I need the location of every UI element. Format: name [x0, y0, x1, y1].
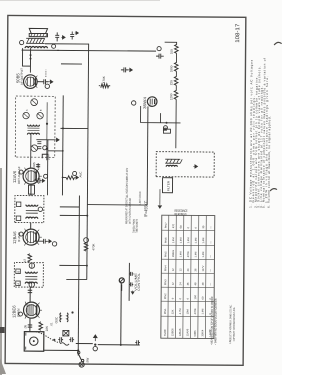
junction dots on plate wire	[30, 58, 32, 60]
volume pot wire comp	[42, 154, 50, 160]
svg-text:220: 220	[169, 80, 173, 85]
junction dots	[46, 123, 48, 125]
svg-text:.01: .01	[49, 322, 53, 326]
pen curl mark left	[270, 189, 277, 192]
resistor R1	[39, 322, 54, 332]
secondary winding	[27, 125, 39, 127]
svg-text:108-17: 108-17	[235, 24, 241, 43]
svg-text:READINGS: READINGS	[175, 213, 187, 217]
svg-text:1.4M: 1.4M	[178, 252, 182, 258]
svg-text:AVC: AVC	[79, 171, 83, 178]
wire V3 grid to can C coil	[30, 134, 32, 168]
svg-text:150: 150	[193, 295, 197, 300]
svg-text:ALL VOLTAGES TAKEN AT 117V: ALL VOLTAGES TAKEN AT 117V	[125, 168, 129, 198]
svg-text:B: B	[40, 109, 43, 111]
can wire	[46, 102, 48, 160]
core lines	[27, 128, 39, 131]
cap on AC line	[135, 340, 140, 344]
svg-text:470K: 470K	[102, 76, 106, 83]
svg-text:50B5: 50B5	[193, 330, 197, 337]
svg-text:SW: SW	[86, 358, 90, 363]
B+ riser wire	[57, 49, 156, 52]
svg-text:.005: .005	[32, 162, 36, 168]
svg-text:6. Volume control at maximum,: 6. Volume control at maximum, no signal …	[267, 116, 272, 208]
pen curl mark right	[274, 42, 282, 45]
primary winding	[25, 282, 37, 284]
voltage circle above 35W4	[131, 101, 135, 105]
svg-text:DET-AVC-AF: DET-AVC-AF	[17, 166, 21, 184]
svg-text:PIN7: PIN7	[164, 222, 168, 228]
wire x246	[60, 127, 87, 129]
wire IF2 to V3	[30, 184, 32, 195]
IF3 can big (dashed) around det coils	[15, 96, 55, 160]
line cluster circle	[93, 346, 97, 350]
junction dot on bus	[77, 349, 79, 351]
top edge faint line	[0, 0, 160, 2]
padder cap A	[58, 337, 63, 342]
svg-text:COPYRIGHT 1949 INDIANAPOLIS 5,: COPYRIGHT 1949 INDIANAPOLIS 5, IND.	[233, 307, 236, 341]
cathode bypass cap + ground below V4	[37, 79, 53, 88]
svg-text:4.7M: 4.7M	[178, 309, 182, 315]
svg-text:A: A	[16, 283, 20, 285]
can C secondary return + gnd	[36, 138, 59, 142]
svg-text:22K: 22K	[45, 326, 49, 331]
svg-text:1.4M: 1.4M	[201, 309, 205, 315]
svg-text:• TAKEN WITH NO SIGNAL VACUUM: • TAKEN WITH NO SIGNAL VACUUM VOLTMETER	[213, 299, 217, 345]
grid capacitor C2	[23, 325, 32, 330]
svg-text:35W4: 35W4	[142, 96, 147, 109]
svg-text:1000: 1000	[169, 65, 173, 72]
pot bottom wire	[128, 263, 130, 301]
svg-text:OSC: OSC	[54, 316, 58, 323]
speaker return wire	[45, 43, 89, 45]
wire x159	[60, 214, 87, 216]
svg-text:0: 0	[194, 226, 198, 228]
speaker SP	[29, 28, 47, 36]
svg-text:0: 0	[178, 297, 182, 299]
svg-text:22K: 22K	[171, 309, 175, 314]
svg-text:48: 48	[193, 282, 197, 285]
wire x170 down to B+ line	[87, 204, 147, 206]
det load wiring	[48, 151, 67, 178]
wire x167	[60, 206, 79, 208]
cap on pot wire	[129, 272, 133, 276]
resistor R2 between IF1 and V2	[23, 254, 32, 262]
svg-text:.05: .05	[23, 325, 27, 330]
gnd arrow below	[193, 165, 198, 169]
svg-text:1MEG: 1MEG	[171, 250, 175, 257]
oscillator coil L2	[54, 311, 73, 323]
wire V2 plate to IF2	[30, 223, 32, 229]
cap at can A output	[28, 290, 33, 292]
svg-text:PIN4: PIN4	[163, 265, 167, 271]
svg-text:30: 30	[201, 225, 205, 228]
core lines	[25, 277, 37, 280]
grid resistor boxed	[28, 185, 34, 194]
svg-text:470K: 470K	[92, 244, 96, 251]
trimmer caps boxed labels	[16, 281, 21, 286]
svg-text:470: 470	[171, 223, 175, 228]
B+ wire from transformer down	[22, 49, 59, 51]
bleeder lead wire + arrow	[158, 189, 162, 208]
svg-text:LINE CORD: LINE CORD	[138, 191, 142, 204]
resistor R6 with voltage circle	[84, 238, 96, 251]
svg-text:WITH CHASSIS GROUND: WITH CHASSIS GROUND	[128, 198, 132, 224]
resistor near 50B5 grid	[99, 76, 110, 88]
IF transformer T1 can (dashed)	[14, 263, 43, 288]
secondary winding	[25, 272, 37, 274]
AC line wire down	[98, 344, 140, 346]
detector filter caps	[37, 142, 47, 150]
svg-text:—: —	[210, 226, 213, 229]
svg-text:470K: 470K	[193, 308, 197, 314]
dashed box filter/field coil	[156, 152, 214, 177]
AVC bus wire	[61, 95, 64, 195]
padder return wire	[76, 343, 93, 345]
volume control pot R9	[119, 272, 141, 291]
IF transformer T2 can (dashed)	[15, 196, 44, 223]
svg-text:PIN6: PIN6	[164, 237, 168, 243]
svg-text:0: 0	[171, 297, 175, 299]
svg-text:36: 36	[193, 268, 197, 271]
rect plate wiring	[141, 106, 181, 123]
bottom-left smudge	[0, 358, 6, 374]
svg-text:68: 68	[179, 225, 183, 228]
on-off switch on line cord	[77, 351, 89, 362]
cap + gnd near volume pot	[129, 282, 134, 294]
diode load resistor below V3	[66, 171, 79, 179]
svg-text:FILTER: FILTER	[166, 180, 170, 191]
output tube V4 50B5	[15, 68, 39, 89]
svg-text:0: 0	[186, 297, 190, 299]
svg-text:CONTROL: CONTROL	[137, 273, 141, 291]
table grid	[161, 215, 215, 338]
voltage circle	[19, 232, 23, 236]
wire converter plate to IF1	[29, 287, 31, 302]
svg-text:12BE6: 12BE6	[170, 328, 174, 336]
svg-text:1.4M: 1.4M	[201, 252, 205, 258]
svg-text:AF OUTPUT: AF OUTPUT	[20, 68, 24, 85]
det tube V3 12AV6	[12, 166, 42, 185]
coupling cap C8	[32, 162, 40, 168]
electrolytic cap with gnd arrow	[121, 67, 133, 72]
screen bypass cap + gnd below V2	[39, 239, 57, 246]
svg-text:24: 24	[186, 268, 190, 271]
R12	[169, 62, 178, 72]
junction dots	[86, 265, 88, 267]
B+ line	[146, 106, 149, 205]
line cluster dot	[94, 343, 96, 345]
dotted cathode lead	[45, 70, 47, 77]
wire x310	[61, 63, 82, 65]
svg-text:—: —	[209, 255, 212, 258]
svg-text:470K: 470K	[186, 251, 190, 257]
R11	[169, 76, 178, 85]
svg-text:48: 48	[201, 282, 205, 285]
left paper edge shade	[0, 168, 2, 375]
junction dot	[120, 344, 122, 346]
svg-text:A: A	[26, 109, 29, 111]
heater bus wire	[87, 44, 89, 280]
svg-text:TUBE: TUBE	[163, 329, 167, 336]
AVC return wire	[46, 140, 48, 195]
line cluster arrow	[93, 335, 97, 341]
svg-text:60: 60	[201, 296, 205, 299]
padder cap B	[69, 337, 74, 342]
left edge tick mark	[0, 327, 5, 333]
svg-text:24: 24	[178, 282, 182, 285]
R13	[170, 44, 179, 54]
IF amp tube V2 12BA6	[12, 228, 42, 245]
trimmer top (orig right)	[29, 263, 34, 268]
hatched bar in box	[165, 159, 182, 163]
scan edge artifacts in portrait coords	[0, 0, 160, 375]
svg-text:35W4: 35W4	[200, 329, 204, 336]
primary winding	[27, 133, 39, 135]
svg-text:1.4M: 1.4M	[194, 238, 198, 244]
voltage circle below V3	[44, 174, 48, 178]
svg-text:1.4M: 1.4M	[193, 252, 197, 258]
wire x95	[66, 278, 86, 280]
svg-text:PIN5: PIN5	[163, 251, 167, 257]
svg-text:12: 12	[171, 268, 175, 271]
gang link dashed curve	[36, 332, 61, 343]
link coupling squiggle	[60, 343, 69, 346]
svg-text:12AV6: 12AV6	[185, 328, 189, 336]
trimmer circle upper	[23, 112, 29, 118]
input filter cap + voltage circle	[156, 47, 164, 59]
svg-text:36: 36	[186, 282, 190, 285]
svg-text:—: —	[210, 241, 213, 244]
trimmer bottom (orig left)	[29, 282, 34, 287]
trimmer circle right	[31, 99, 38, 106]
divider rail wire	[164, 42, 177, 148]
output transformer T4	[25, 38, 47, 48]
plate wire V4 to transformer	[22, 48, 30, 73]
tuning gang box with circle	[24, 332, 44, 352]
svg-text:—: —	[209, 269, 212, 272]
labeled rectangle left of dashed box	[162, 178, 172, 193]
divider resistor chain R10	[169, 90, 178, 100]
svg-text:—: —	[209, 283, 212, 286]
svg-text:1.4M: 1.4M	[186, 238, 190, 244]
svg-text:PIN3: PIN3	[163, 279, 167, 285]
converter tube V1 12BE6	[11, 301, 42, 318]
svg-text:1.4M: 1.4M	[201, 238, 205, 244]
wire gang to converter grid	[29, 318, 31, 331]
fuse resistor box	[163, 129, 170, 133]
voltage circle pin	[18, 312, 22, 316]
svg-text:47: 47	[23, 258, 27, 262]
pilot lamp circle at left border	[79, 362, 84, 367]
tone cap + gnd right of transformer	[52, 32, 66, 48]
svg-text:10M: 10M	[186, 309, 190, 314]
svg-text:1.4M: 1.4M	[171, 237, 175, 243]
rectifier tube V5 35W4	[142, 96, 157, 109]
boxed trimmer with X	[63, 330, 69, 336]
svg-text:117V: 117V	[201, 265, 205, 271]
switch feed wire	[78, 196, 79, 356]
border frame	[5, 15, 246, 365]
V3 cathode cap + gnd	[36, 178, 45, 183]
voltage circle left of can C	[31, 145, 38, 152]
svg-text:150: 150	[170, 49, 174, 54]
voltage circle	[19, 170, 23, 174]
junction dot on link	[53, 339, 55, 341]
gang ground wire	[44, 349, 78, 351]
filter cap cluster	[163, 122, 168, 130]
svg-text:0: 0	[186, 226, 190, 228]
svg-text:12: 12	[171, 282, 175, 285]
svg-text:1200: 1200	[169, 93, 173, 100]
svg-text:1.4M: 1.4M	[179, 238, 183, 244]
table cell text	[163, 222, 213, 337]
wire x109	[59, 264, 86, 266]
svg-text:PIN2: PIN2	[163, 293, 167, 299]
voltage circle above transformer	[20, 40, 24, 44]
winding left of bar	[166, 165, 177, 166]
svg-text:PIN1: PIN1	[163, 308, 167, 314]
svg-text:12BA6: 12BA6	[178, 328, 182, 336]
pot link wire	[120, 283, 122, 345]
cap + gnd arrow right area	[70, 31, 78, 39]
svg-text:B: B	[17, 271, 21, 273]
svg-text:12: 12	[178, 268, 182, 271]
svg-text:TUBE SOCKETS: TUBE SOCKETS	[135, 219, 139, 233]
trimmer circle lower	[37, 112, 43, 118]
